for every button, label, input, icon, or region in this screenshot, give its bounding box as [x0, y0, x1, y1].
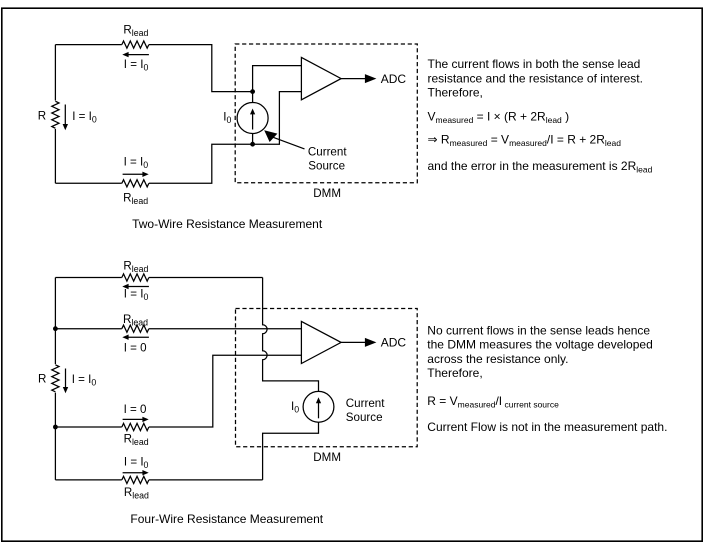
svg-text:Current: Current [308, 146, 347, 159]
svg-text:Current Flow is not in the mea: Current Flow is not in the measurement p… [427, 420, 667, 434]
svg-text:I = 0: I = 0 [124, 403, 147, 416]
svg-text:I = 0: I = 0 [124, 341, 147, 354]
svg-text:Therefore,: Therefore, [427, 366, 482, 380]
svg-text:R: R [38, 372, 46, 385]
svg-text:Current: Current [346, 397, 385, 410]
svg-text:DMM: DMM [313, 187, 341, 200]
svg-text:The current flows in both the: The current flows in both the sense lead [428, 57, 641, 71]
svg-text:ADC: ADC [381, 336, 407, 350]
svg-text:resistance and the resistance: resistance and the resistance of interes… [428, 71, 643, 85]
svg-text:Source: Source [308, 159, 345, 172]
svg-text:Source: Source [346, 411, 383, 424]
svg-text:Four-Wire Resistance Measureme: Four-Wire Resistance Measurement [130, 512, 323, 526]
svg-text:R: R [38, 110, 46, 123]
svg-text:the DMM measures the voltage d: the DMM measures the voltage developed [427, 338, 652, 352]
svg-text:across the resistance only.: across the resistance only. [427, 352, 568, 366]
svg-text:No current flows in the sense: No current flows in the sense leads henc… [427, 324, 650, 338]
svg-text:DMM: DMM [313, 451, 341, 464]
svg-text:Two-Wire Resistance Measuremen: Two-Wire Resistance Measurement [132, 217, 323, 231]
svg-text:Therefore,: Therefore, [428, 85, 483, 99]
svg-text:ADC: ADC [381, 72, 407, 86]
svg-text:and the error in the measureme: and the error in the measurement is 2Rle… [428, 159, 653, 175]
